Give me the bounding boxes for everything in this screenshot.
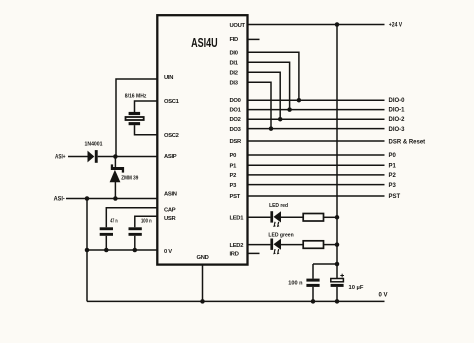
svg-text:ASIP: ASIP — [164, 154, 177, 160]
diode D1 1N4001 symbol — [88, 150, 98, 163]
junction DI2-DO2 — [278, 117, 283, 122]
wire IRD stub — [248, 252, 259, 254]
wire LED1 pin to LED red cathode — [248, 216, 270, 218]
wire PST out — [248, 195, 384, 197]
svg-text:P1: P1 — [389, 164, 397, 170]
junction ASI- left rail — [85, 196, 90, 201]
wire CAP pin to C1 — [106, 208, 156, 228]
wire LED2 pin to LED green cathode — [248, 244, 270, 246]
wire R2 to +24V rail — [324, 244, 338, 246]
svg-text:FID: FID — [230, 37, 239, 43]
wire OSC1 pin to crystal top — [135, 101, 157, 112]
svg-text:ASI4U: ASI4U — [191, 36, 218, 50]
wire UOUT to +24V — [248, 24, 384, 26]
LED green D4 symbol — [270, 239, 281, 255]
junction R1 on +24V rail — [335, 215, 340, 220]
wire P3 out — [248, 184, 384, 186]
wire zener top segment — [114, 157, 116, 168]
junction GND on bottom rail — [200, 299, 205, 304]
svg-text:USR: USR — [164, 216, 176, 222]
svg-text:UOUT: UOUT — [230, 23, 246, 29]
wire C1 bottom to 0V line — [105, 236, 107, 250]
junction C3 branch on rail — [335, 262, 340, 267]
svg-text:P2: P2 — [230, 173, 237, 179]
svg-text:OSC2: OSC2 — [164, 133, 179, 139]
wire D1 cathode to ASIP pin — [98, 156, 157, 158]
svg-text:GND: GND — [197, 255, 209, 261]
wire C3 branch vertical — [312, 264, 314, 279]
zener diode D2 ZMM 39 symbol — [110, 164, 125, 182]
wire DI1 to DIO-1 node — [248, 62, 289, 109]
svg-text:P0: P0 — [389, 153, 397, 159]
svg-text:P1: P1 — [230, 164, 238, 170]
junction ASI+ node — [113, 154, 118, 159]
svg-text:ZMM 39: ZMM 39 — [121, 175, 139, 181]
svg-text:DSR & Reset: DSR & Reset — [389, 140, 426, 146]
svg-text:LED red: LED red — [269, 203, 288, 209]
wire 0V pin line — [87, 249, 157, 251]
svg-text:DO2: DO2 — [230, 117, 241, 123]
svg-text:ASI+: ASI+ — [55, 154, 66, 160]
svg-text:0 V: 0 V — [164, 249, 172, 255]
svg-text:DSR: DSR — [230, 139, 242, 145]
svg-text:DIO-1: DIO-1 — [389, 108, 406, 114]
junction C2 on 0V line — [133, 248, 138, 253]
capacitor C1 47n symbol — [100, 227, 113, 235]
svg-text:OSC1: OSC1 — [164, 99, 180, 105]
svg-text:P0: P0 — [230, 153, 237, 159]
wire LED red anode to R1 — [281, 216, 303, 218]
svg-text:47 n: 47 n — [110, 218, 118, 224]
svg-text:LED2: LED2 — [230, 243, 244, 249]
wire LED green anode to R2 — [281, 244, 303, 246]
wire DO3 to DIO-3 — [248, 128, 384, 130]
svg-text:DIO-2: DIO-2 — [389, 117, 406, 123]
svg-text:DI1: DI1 — [230, 61, 239, 67]
junction C1 on 0V line — [104, 248, 109, 253]
capacitor C3 100n symbol — [306, 279, 319, 287]
svg-text:DIO-0: DIO-0 — [389, 98, 406, 104]
junction +24V rail top — [335, 22, 340, 27]
svg-text:100 n: 100 n — [288, 280, 303, 286]
wire C4 bottom to rail — [336, 287, 338, 302]
junction C4 on bottom rail — [335, 299, 340, 304]
junction DI0-DO0 — [297, 98, 302, 103]
wire DI0 to DIO-0 node — [248, 52, 299, 100]
svg-text:PST: PST — [230, 194, 241, 200]
svg-text:IRD: IRD — [230, 252, 239, 258]
wire DO0 to DIO-0 — [248, 99, 384, 101]
capacitor C4 10uF symbol — [331, 279, 344, 287]
svg-text:DO3: DO3 — [230, 127, 242, 133]
resistor R2 — [303, 241, 323, 249]
LED red D3 symbol — [270, 211, 281, 227]
svg-text:10 µF: 10 µF — [349, 285, 364, 291]
wire ASI- to ASIN pin — [66, 198, 157, 200]
svg-text:8/16 MHz: 8/16 MHz — [125, 94, 147, 100]
wire DI3 to DIO-3 node — [248, 82, 271, 128]
wire ASI+ input segment — [68, 156, 88, 158]
wire zener bottom segment — [114, 182, 116, 199]
capacitor C2 100n symbol — [129, 227, 142, 235]
junction DI3-DO3 — [269, 126, 274, 131]
junction C3 on bottom rail — [311, 299, 316, 304]
wire P0 out — [248, 154, 384, 156]
wire R1 to +24V rail — [324, 216, 338, 218]
wire P1 out — [248, 164, 384, 166]
svg-text:CAP: CAP — [164, 207, 176, 213]
svg-text:P3: P3 — [230, 183, 238, 189]
svg-text:DI3: DI3 — [230, 81, 239, 87]
wire C2 bottom to 0V line — [134, 236, 136, 250]
svg-text:PST: PST — [389, 194, 401, 200]
wire DSR to DSR & Reset — [248, 140, 384, 142]
svg-text:ASIN: ASIN — [164, 192, 177, 198]
wire UIN pin to ASI+ node — [116, 79, 157, 156]
wire C3 bottom to rail — [312, 287, 314, 302]
wire +24V rail vertical upper — [336, 25, 338, 279]
junction DI1-DO1 — [287, 107, 292, 112]
junction 0V left rail — [85, 248, 90, 253]
svg-text:P2: P2 — [389, 173, 397, 179]
wire DO1 to DIO-1 — [248, 109, 384, 111]
wire bottom ground rail — [87, 300, 385, 302]
svg-text:DO1: DO1 — [230, 108, 242, 114]
IC U1 ASI4U body — [157, 15, 247, 264]
capacitor C4 10uF polarity plus — [340, 274, 344, 278]
junction R2 on +24V rail — [335, 242, 340, 247]
svg-text:100 n: 100 n — [141, 218, 152, 224]
wire USR pin to C2 — [135, 216, 157, 227]
wire C3 branch horizontal — [313, 263, 337, 265]
wire DO2 to DIO-2 — [248, 118, 384, 120]
svg-text:DI0: DI0 — [230, 51, 238, 57]
wire DI2 to DIO-2 node — [248, 72, 280, 119]
svg-text:P3: P3 — [389, 183, 397, 189]
svg-text:+24 V: +24 V — [389, 23, 402, 29]
svg-text:DIO-3: DIO-3 — [389, 127, 406, 133]
resistor R1 — [303, 214, 323, 222]
crystal X1 symbol — [126, 112, 144, 125]
svg-text:1N4001: 1N4001 — [85, 141, 104, 147]
wire left ground rail vertical — [86, 199, 88, 302]
svg-text:LED1: LED1 — [230, 216, 245, 222]
svg-text:ASI-: ASI- — [54, 197, 65, 203]
wire GND pin to bottom rail — [202, 265, 204, 302]
svg-text:DI2: DI2 — [230, 71, 238, 77]
svg-text:UIN: UIN — [164, 75, 173, 81]
wire crystal bottom to OSC2 pin — [135, 125, 157, 135]
svg-text:0 V: 0 V — [379, 293, 388, 299]
wire FID stub — [248, 38, 259, 40]
svg-text:DO0: DO0 — [230, 98, 241, 104]
wire P2 out — [248, 174, 384, 176]
svg-text:LED green: LED green — [268, 233, 294, 239]
junction zener anode on ASI- — [113, 196, 118, 201]
